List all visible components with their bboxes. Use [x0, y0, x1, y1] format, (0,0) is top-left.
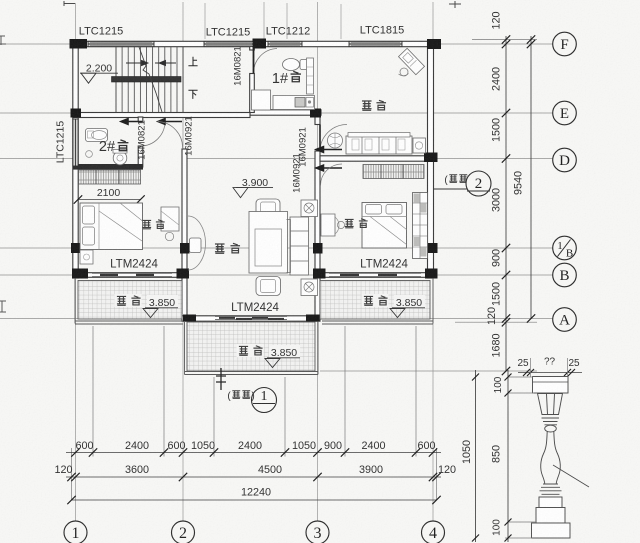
label 卧室 left — [142, 220, 164, 229]
section cut line bottom — [216, 368, 226, 390]
bath2 door leaf arrow — [121, 119, 142, 125]
bath1 shower shelf — [307, 58, 314, 94]
staircase treads — [116, 47, 183, 112]
right dim inner ticks — [502, 35, 510, 375]
top extension stub b — [263, 2, 265, 39]
level mark 2.200 triangle — [81, 73, 96, 83]
grid axis line column 3 — [317, 2, 319, 521]
top-right corner tick — [449, 1, 461, 8]
grid axis row A — [0, 318, 553, 320]
column grid F4 — [427, 39, 441, 49]
terrace right outer edge — [322, 278, 433, 324]
label shang (up) — [188, 57, 197, 66]
baluster base block lowest — [532, 523, 571, 538]
bottom dim line row2 — [66, 476, 441, 478]
left bedside cabinet — [80, 250, 93, 264]
wall row E below bath1 — [250, 110, 321, 115]
level mark 3.900 underline — [236, 187, 273, 189]
wall study south row D — [320, 156, 434, 161]
staircase handrail bar — [112, 77, 182, 83]
terrace right label 露台 3.850 — [362, 294, 426, 318]
bedroom door swing arc below D — [321, 164, 343, 186]
baluster neck rings — [542, 418, 560, 425]
baluster base block mid — [536, 508, 565, 524]
label 1#卫 — [272, 71, 301, 87]
baluster cap — [533, 377, 569, 394]
grid axis line column 4 — [432, 2, 434, 521]
right dresser — [321, 214, 335, 236]
label 卧室 right — [345, 219, 368, 228]
grid axis row D — [186, 158, 553, 160]
bottom dim row1 values — [75, 440, 435, 452]
wall bath2 right upper — [138, 117, 143, 122]
wall below stairs row E — [73, 113, 250, 118]
door LTM2424 center (row A) symbol — [215, 316, 287, 319]
terrace center outer edge — [185, 322, 319, 375]
terrace left outer edge — [75, 278, 183, 324]
door LTM2424 right-bay symbol — [329, 273, 421, 276]
top extension stub a — [204, 3, 206, 39]
baluster top extension lines — [530, 358, 532, 377]
bath2 floor drain — [86, 151, 93, 158]
wall row B left bay — [76, 273, 186, 278]
terrace right hatch — [320, 281, 430, 320]
column B right end — [425, 269, 438, 279]
study plant — [328, 133, 343, 148]
wall left exterior — [73, 41, 78, 278]
label 书房 — [362, 100, 386, 110]
bottom dim row2 ticks — [67, 473, 440, 481]
living flower table bottom — [301, 279, 318, 296]
grid bubble row E — [553, 101, 577, 125]
column 1/B living west — [180, 243, 190, 254]
column E left — [71, 109, 82, 118]
bottom dim row2 values — [54, 464, 456, 476]
bath2 door swing arc — [141, 122, 166, 147]
bath2 washbasin — [86, 129, 108, 142]
terrace bottom extension to dim — [320, 370, 537, 372]
detail ref 2 bubble — [466, 171, 491, 196]
baluster base block upper — [539, 497, 562, 508]
wall right exterior — [428, 41, 434, 278]
staircase side rail — [115, 47, 117, 112]
column grid F mid — [253, 39, 267, 49]
window LTC1215 b — [204, 41, 254, 46]
grid axis row F — [0, 43, 553, 45]
column 1/B left wall — [71, 243, 81, 253]
grid bubble row D — [553, 148, 577, 172]
wall row B right bay — [315, 273, 433, 278]
right dim 120 extension — [455, 321, 537, 323]
grid axis row B — [0, 274, 553, 276]
staircase right edge — [182, 47, 184, 112]
terrace center label 露台 3.850 — [237, 344, 301, 368]
grid axis row E — [0, 112, 553, 114]
living tv arc west wall — [188, 216, 206, 270]
study chair — [400, 68, 408, 76]
detail ref 1 text (余图) — [227, 391, 254, 402]
left edge mark upper — [0, 36, 6, 45]
baluster dim line inner — [507, 370, 509, 542]
column 1/B living east — [313, 243, 323, 254]
column D right — [424, 153, 438, 163]
label 客厅 — [215, 243, 240, 253]
study sofa — [346, 136, 412, 154]
bottom dim line row1 — [66, 452, 441, 454]
bath1 door swing arc — [253, 49, 277, 74]
bath1 door leaf — [253, 49, 255, 74]
bottom dim extension lines — [72, 326, 437, 500]
grid bubble column 3 — [306, 521, 329, 543]
grid bubble row B — [553, 263, 577, 287]
top extension stub d — [340, 4, 342, 39]
grid axis line column 1 — [75, 3, 77, 521]
wall living east stub — [315, 114, 320, 125]
wall bath2 right lower — [138, 146, 143, 167]
wall bath2 bottom dark — [73, 164, 143, 170]
detail ref 2 text (余图) — [444, 175, 470, 186]
door arrow above D wall — [316, 147, 342, 153]
baluster leader line — [553, 465, 589, 487]
window LTC1212 — [268, 41, 302, 46]
left bed — [80, 203, 143, 250]
window LTC1815 — [349, 41, 402, 46]
level mark 2.200 underline — [80, 72, 118, 74]
right dim eave extension — [472, 39, 537, 41]
left bedroom tv table — [161, 207, 179, 231]
study desk rotated — [399, 48, 425, 74]
right dim line inner — [505, 36, 507, 371]
wall living east — [315, 151, 320, 319]
baluster dim extensions — [505, 377, 536, 538]
bottom dim row3 ticks — [67, 496, 75, 504]
right wardrobe band — [363, 165, 424, 179]
right dim line outer 9540 — [530, 36, 532, 319]
terrace left hatch — [78, 281, 182, 320]
bath1 counter — [273, 96, 315, 110]
bath2 toilet — [113, 151, 127, 165]
baluster upper block — [538, 394, 563, 415]
label xia (down) — [188, 90, 197, 99]
bath1 tub — [252, 90, 271, 110]
grid bubble column 1 — [64, 521, 87, 543]
level mark 3.900 triangle — [233, 188, 248, 198]
baluster base rings — [540, 484, 562, 494]
staircase mid arrow — [155, 60, 176, 65]
living sofa east — [290, 217, 309, 275]
wall living west — [182, 149, 187, 319]
column 1/B right wall — [428, 243, 438, 253]
wall row A living south — [182, 316, 320, 321]
grid bubble row 1/B — [553, 236, 577, 260]
wall bath1 left lower — [250, 74, 255, 113]
door arrow below D wall — [316, 165, 342, 171]
terrace left label 露台 3.850 — [115, 294, 179, 318]
door LTM2424 left-bay symbol — [92, 273, 172, 276]
baluster top dim line 25/??/25 — [518, 372, 582, 374]
door swing arc 16M0921 west — [158, 122, 183, 150]
detail ref 1 bubble — [252, 388, 277, 413]
right dim inner values — [486, 11, 503, 357]
left wardrobe band — [79, 170, 141, 184]
window LTC1215 a — [88, 41, 154, 46]
bottom dim row1 ticks — [71, 448, 437, 456]
column B left inner — [177, 269, 190, 279]
staircase up arrow — [126, 60, 148, 65]
study side table — [413, 138, 426, 153]
column grid F1 — [70, 39, 88, 49]
grid bubble column 2 — [172, 521, 195, 543]
door arrow 16M0921 west — [158, 119, 182, 125]
grid axis row D stub left — [0, 158, 73, 160]
dimension 2100 line — [78, 199, 141, 201]
terrace center hatch — [187, 322, 315, 371]
top-left corner tick — [64, 1, 75, 6]
label 2#卫 — [99, 139, 128, 155]
bottom dim line row3 — [72, 499, 437, 501]
bath1 toilet — [283, 59, 300, 71]
living flower table top — [301, 200, 318, 217]
column A pier left — [183, 315, 196, 322]
living armchair top — [256, 199, 280, 218]
top extension stub c — [286, 3, 288, 39]
right closet strip — [413, 193, 428, 259]
column A pier right — [306, 315, 320, 322]
wall bath1 left upper — [250, 46, 255, 50]
column B right inner — [313, 269, 326, 279]
left edge mark lower — [0, 301, 6, 312]
baluster vase shaft — [541, 432, 561, 485]
wall top exterior (row F) — [73, 41, 437, 46]
grid axis row 1/B — [0, 247, 553, 249]
window LTC1215 left wall — [73, 119, 78, 166]
living table — [249, 212, 288, 274]
staircase break line — [139, 47, 162, 112]
door swing arc 16M0921 east — [320, 125, 347, 152]
grid bubble row A — [553, 308, 577, 332]
baluster dim line outer 1050 — [475, 370, 477, 542]
grid bubble row F — [553, 32, 577, 56]
grid bubble column 4 — [422, 521, 445, 543]
grid axis line column 2 — [182, 2, 184, 521]
column B left end — [72, 269, 88, 279]
column E bath1 — [310, 109, 321, 118]
living armchair bottom — [256, 277, 281, 296]
detail ref 2 leader — [434, 188, 490, 190]
right bed — [362, 203, 407, 249]
